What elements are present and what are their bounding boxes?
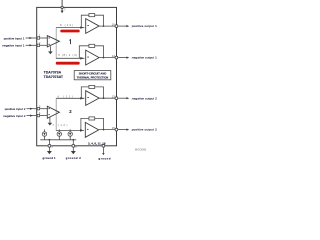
ground symbol 2 [71,151,76,154]
op-amp A4 input amplifier channel 2 [47,106,59,118]
arrowhead into A6 [80,129,83,132]
pin square negative output 1 [115,56,117,58]
op-amp A1 input amplifier channel 1 [47,36,59,47]
red highlight bar 1 [60,30,79,33]
pin square ground 2 [72,145,74,147]
ground pin drop 2 [72,140,74,151]
pin square positive input 1 [37,37,39,39]
arrowhead negative output 2 [126,97,129,99]
svg-text:10: 10 [112,22,116,26]
svg-text:TDA7073A: TDA7073A [44,71,62,75]
current source CS3 [68,129,72,139]
feedback resistor R1 of op-amp A2 [81,14,103,28]
pin square ground 3 [102,145,104,147]
arrowhead into A3 [80,57,83,60]
svg-text:TDA7073AT: TDA7073AT [44,75,64,79]
pin square negative input 2 [37,114,39,116]
junction dot A5 output [103,97,105,99]
junction dot bus left [49,139,51,141]
vertical split line channel 2 [55,98,57,130]
arrowhead input 1 neg [29,44,32,46]
minus mark A5 [87,96,89,99]
op-amp A2 output channel 1 positive [86,19,99,34]
minus mark A1 [48,43,50,46]
pin square negative input 1 [37,44,39,46]
plus mark A4 [48,107,50,110]
feedback resistor R4 of op-amp A6 [81,117,104,130]
wire positive output 2 [118,129,127,131]
wire pin to A1 + input [40,37,48,39]
arrowhead positive output 2 [126,129,129,131]
wire W1 to op-amp A5 [56,97,84,99]
arrowhead input 2 pos [30,108,33,110]
ground symbol 1 [47,151,52,154]
svg-text:negative input 2: negative input 2 [3,114,26,118]
svg-text:THERMAL PROTECTION: THERMAL PROTECTION [77,75,109,79]
VP supply pin wire [61,0,63,11]
junction dot A3 output [103,57,105,59]
vertical split line channel 1 [55,28,57,59]
arrowhead input 2 neg [30,115,33,117]
pin square ground 1 [48,145,50,147]
wire negative output 2 [118,97,127,99]
arrowhead positive output 1 [126,25,129,27]
wire pin to A1 - input [40,44,48,46]
wire negative output 1 [118,57,127,59]
minus mark A4 [48,113,50,116]
wire positive output 1 [118,25,127,27]
svg-text:5 (8) 2 (3): 5 (8) 2 (3) [58,53,77,57]
wire pin to A4 + input [40,108,48,110]
channel digit 1 [69,39,71,44]
wire positive input 1 [26,37,37,39]
svg-text:12: 12 [112,54,116,58]
ground bus wire [40,139,76,141]
wire pin to A4 - input [40,115,48,117]
minus mark A2 [87,24,89,27]
output wire A2 [99,25,116,27]
op-amp A5 output channel 2 negative [86,91,99,106]
svg-text:SHORT-CIRCUIT AND: SHORT-CIRCUIT AND [79,72,107,76]
svg-text:negative output 2: negative output 2 [132,96,157,100]
output wire A6 [99,129,117,131]
op-amp A3 output channel 1 negative [86,50,99,65]
arrowhead input 1 [29,37,32,39]
minus mark A3 [87,56,89,59]
output wire A3 [99,57,116,59]
arrowhead negative output 1 [126,57,129,59]
junction dot A2 output [103,25,105,27]
ground pin drop 1 [48,140,50,151]
svg-text:8 (13): 8 (13) [60,23,73,27]
op-amp A6 output channel 2 positive [85,122,98,137]
junction dot A6 output [103,129,105,131]
arrowhead into A5 [80,97,83,100]
pin square positive output 1 [115,25,117,27]
feedback resistor R2 of op-amp A3 [79,44,103,58]
current source CS2 [57,129,61,139]
IC boundary box [37,7,117,145]
svg-text:negative output 1: negative output 1 [132,56,157,60]
output wire A5 [99,97,116,99]
svg-text:ground 2: ground 2 [66,156,82,160]
arrowhead ground drop 3 [102,153,104,155]
wire positive input 2 [27,108,37,110]
wire negative input 2 [27,115,37,117]
svg-text:positive input 2: positive input 2 [5,107,26,111]
wire W2 to op-amp A3 [56,57,85,59]
feedback resistor R3 of op-amp A5 [81,85,103,98]
pin square positive output 2 [115,128,117,130]
ground below A1 [48,46,53,54]
arrowhead into A2 [80,26,83,29]
red highlight bar 2 [56,62,80,65]
VP supply arrowhead [61,11,64,14]
wire W1 to op-amp A2 [56,27,84,29]
wire negative input 1 [26,44,37,46]
svg-text:ground 1: ground 1 [43,156,57,160]
minus mark A6 [87,128,89,131]
svg-text:13: 13 [112,95,116,99]
pin square positive input 2 [37,108,39,110]
svg-text:negative input 1: negative input 1 [2,44,25,48]
svg-text:ground: ground [99,156,111,160]
pin square negative output 2 [115,97,117,99]
wire W2 to op-amp A6 [56,129,84,131]
svg-text:positive output 1: positive output 1 [132,24,157,28]
svg-text:15: 15 [112,126,116,130]
protection block [74,71,111,80]
plus mark A1 [48,37,50,40]
svg-text:positive input 1: positive input 1 [4,36,25,40]
svg-text:MGD086: MGD086 [135,148,147,152]
VP pin square [61,6,63,8]
svg-text:positive output 2: positive output 2 [132,128,157,132]
current source CS1 [42,129,46,139]
ground below A4 [48,117,53,125]
ground pin drop 3 [102,146,104,153]
junction dot bus right [72,139,74,141]
